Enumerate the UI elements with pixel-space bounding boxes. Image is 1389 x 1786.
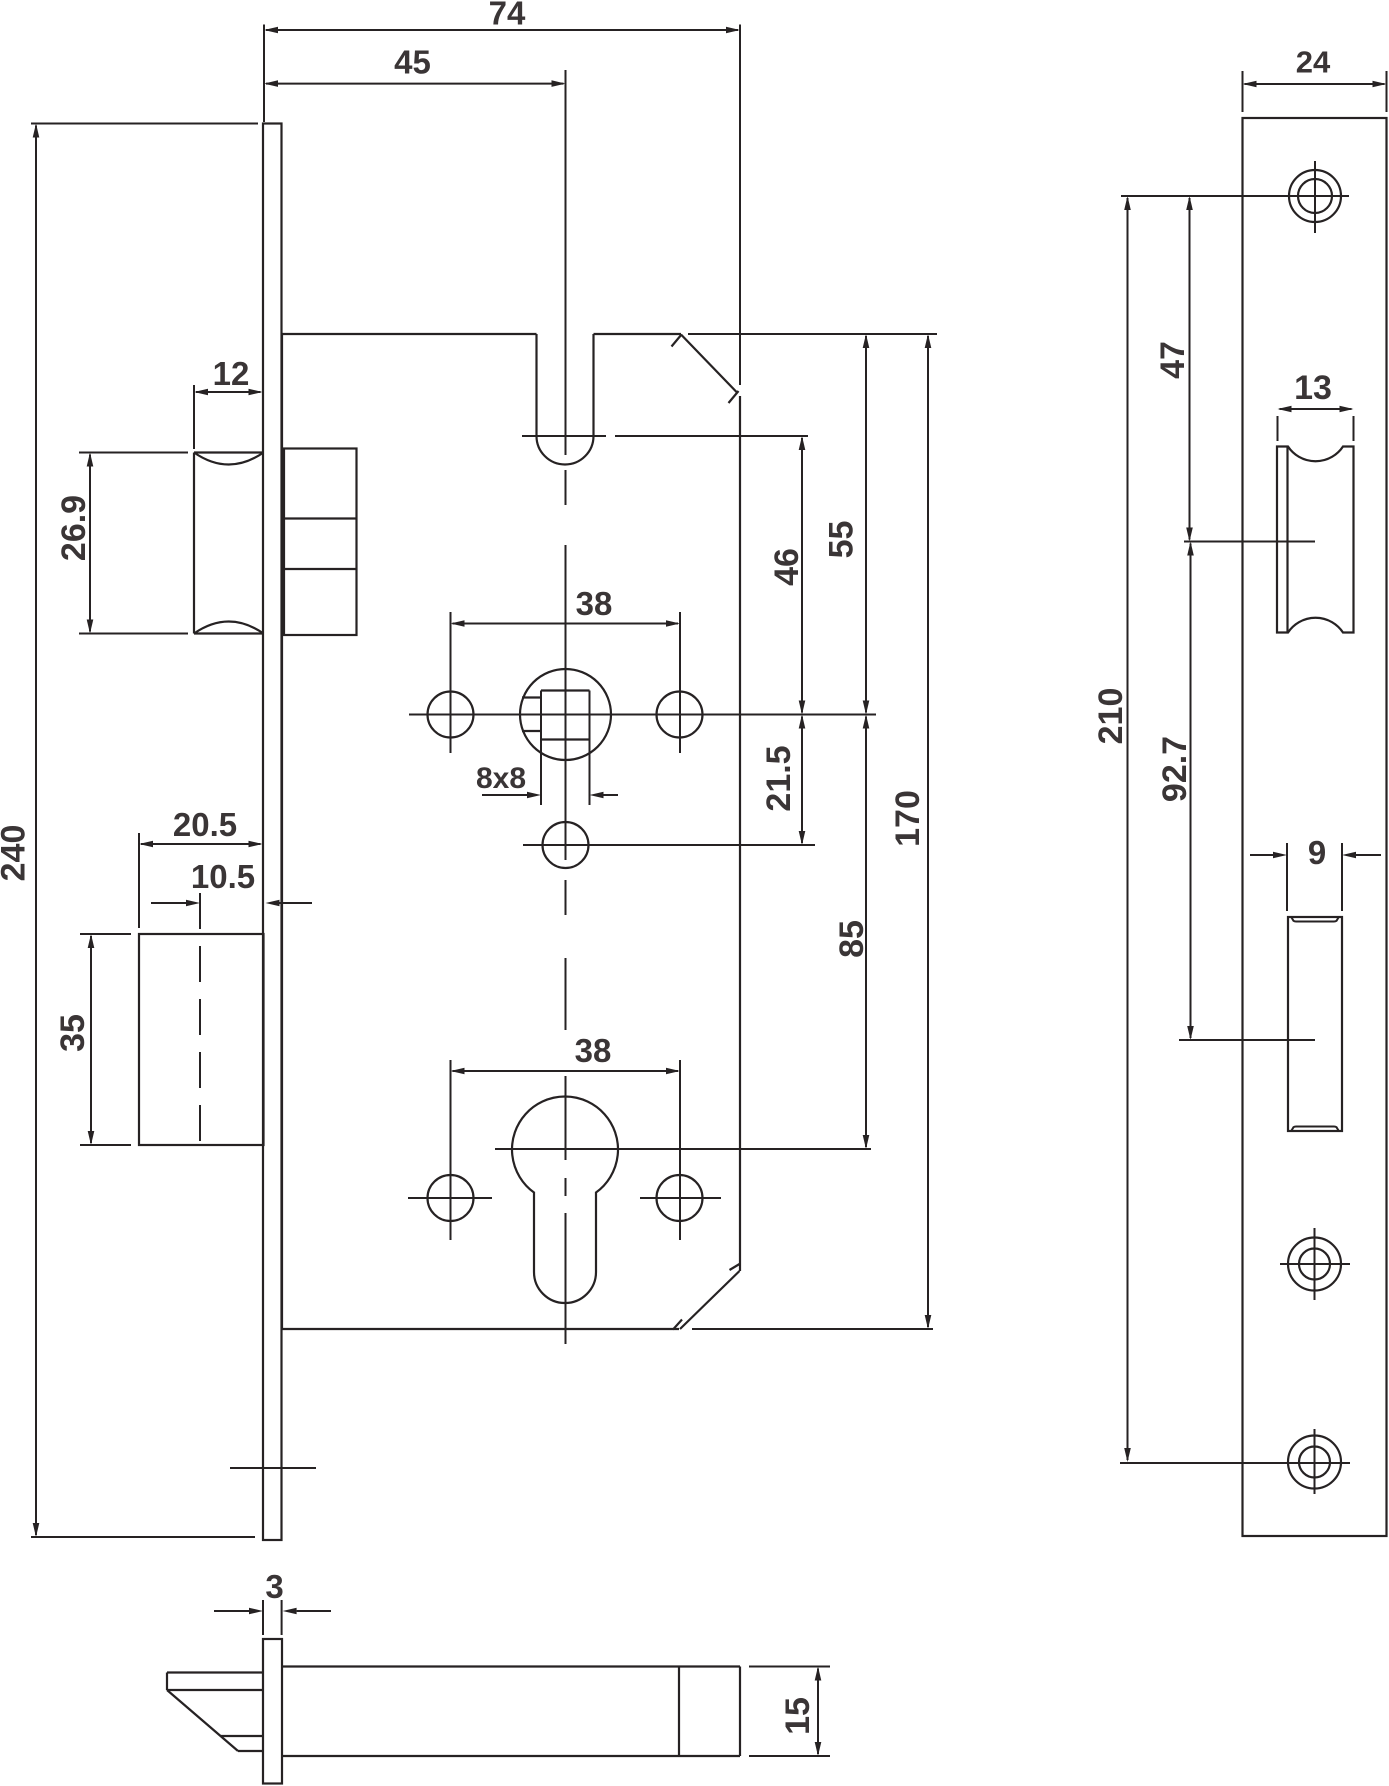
dim 170 xyxy=(889,334,931,1329)
dim 35 xyxy=(54,934,131,1145)
dim 3 xyxy=(214,1568,331,1635)
follower hub slot lines xyxy=(522,698,541,732)
cylinder horizontal centre line xyxy=(495,1148,871,1150)
svg-text:47: 47 xyxy=(1154,341,1192,379)
bottom screw centre line (210 reference) xyxy=(1120,1462,1350,1464)
middle screw hole xyxy=(1280,1228,1350,1300)
svg-text:8x8: 8x8 xyxy=(476,762,526,795)
svg-text:55: 55 xyxy=(823,521,861,559)
cylinder fixing hole left xyxy=(428,1175,474,1221)
svg-text:210: 210 xyxy=(1092,688,1130,745)
case top extension line (55/170) xyxy=(688,333,937,335)
handle fixing hole left xyxy=(428,692,474,738)
case bottom extension line (170) xyxy=(692,1328,933,1330)
svg-text:13: 13 xyxy=(1294,369,1332,407)
svg-text:38: 38 xyxy=(576,585,613,622)
latch pocket (front view) xyxy=(1277,447,1354,633)
follower horizontal centre line xyxy=(409,714,876,716)
svg-text:21.5: 21.5 xyxy=(760,745,798,811)
bottom screw hole xyxy=(1288,1429,1341,1494)
handle fixing hole right xyxy=(657,692,703,738)
dim 92.7 xyxy=(1156,542,1194,1041)
latch pocket centre tick xyxy=(1184,541,1315,543)
follower centre cross xyxy=(557,706,575,724)
notch base line (46 reference) xyxy=(522,435,808,437)
dim 85 xyxy=(833,715,871,1150)
cyl hole left centre line xyxy=(408,1197,492,1199)
faceplate (front view, right) xyxy=(1243,118,1387,1536)
deadbolt pocket centre tick xyxy=(1179,1039,1315,1041)
svg-text:9: 9 xyxy=(1308,834,1326,871)
top screw centre line xyxy=(1121,195,1349,197)
deadbolt (front, through faceplate) xyxy=(139,934,264,1145)
svg-text:74: 74 xyxy=(489,0,526,32)
top screw hole xyxy=(1289,161,1341,233)
case bottom-right corner chamfer xyxy=(673,1264,740,1330)
svg-text:35: 35 xyxy=(54,1014,92,1052)
svg-text:170: 170 xyxy=(889,790,927,847)
dim 21.5 xyxy=(760,715,805,846)
dim 20.5 xyxy=(139,806,263,928)
dim 8x8 xyxy=(476,762,618,798)
hole below follower xyxy=(543,822,589,868)
deadbolt side view body xyxy=(282,1667,740,1757)
dim 26.9 xyxy=(55,453,188,634)
latch bolt (front, through faceplate) xyxy=(194,453,264,634)
deadbolt side view faceplate strip xyxy=(263,1639,282,1784)
dim 15 xyxy=(749,1667,830,1757)
faceplate (edge view, left) xyxy=(263,124,282,1541)
dim 24 xyxy=(1243,45,1387,113)
deadbolt centre line (dashed) xyxy=(199,893,201,1145)
dim 38 lower xyxy=(451,1032,681,1240)
svg-text:20.5: 20.5 xyxy=(173,806,237,843)
case top-right corner chamfer xyxy=(672,335,739,404)
dim 55 xyxy=(823,334,870,715)
svg-text:3: 3 xyxy=(265,1568,283,1605)
svg-text:45: 45 xyxy=(394,44,431,81)
euro cylinder hole profile xyxy=(512,1097,618,1303)
svg-text:26.9: 26.9 xyxy=(55,495,93,561)
lock case outline xyxy=(282,334,681,1329)
svg-text:240: 240 xyxy=(0,825,33,882)
faceplate lower screw centre tick xyxy=(230,1467,316,1469)
svg-text:12: 12 xyxy=(213,355,250,392)
svg-text:10.5: 10.5 xyxy=(191,858,255,895)
lower hole centre line xyxy=(523,844,815,846)
dim 9 xyxy=(1250,834,1381,911)
dim 10.5 xyxy=(151,858,312,906)
svg-text:15: 15 xyxy=(779,1697,817,1735)
svg-text:85: 85 xyxy=(833,920,871,958)
follower hub circle xyxy=(520,669,611,760)
dim 74 xyxy=(264,0,740,122)
dim 45 xyxy=(264,44,566,87)
deadbolt pocket (front view) xyxy=(1288,917,1342,1131)
dim 12 xyxy=(194,355,263,449)
cyl hole right centre line xyxy=(640,1197,721,1199)
latch bolt tail block inside case xyxy=(284,449,357,636)
dim 210 xyxy=(1092,196,1131,1462)
svg-text:92.7: 92.7 xyxy=(1156,736,1194,802)
case right edge / 74 extension line xyxy=(739,25,741,1272)
cylinder fixing hole right xyxy=(657,1175,703,1221)
dim 46 xyxy=(768,436,806,715)
svg-text:24: 24 xyxy=(1296,45,1331,80)
dim 38 upper xyxy=(451,585,681,753)
dim 13 xyxy=(1278,369,1354,441)
deadbolt side view head (bevelled) xyxy=(167,1673,263,1752)
svg-text:46: 46 xyxy=(768,548,806,586)
svg-text:38: 38 xyxy=(575,1032,612,1069)
follower 8x8 square hole xyxy=(541,691,590,806)
vertical centre line of lock xyxy=(565,70,567,1344)
dim 47 xyxy=(1154,196,1193,542)
dim 240 xyxy=(0,124,258,1538)
